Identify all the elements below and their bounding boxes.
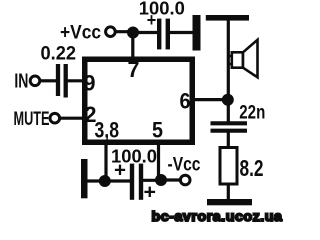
svg-text:+: + [144,182,157,204]
capacitor C3 100.0 plates [132,164,141,200]
svg-text:+: + [114,159,126,181]
junction dot 3,8 node [99,175,111,187]
svg-text:7: 7 [128,57,140,82]
svg-text:+: + [147,10,157,30]
resistor R1 8.2 [220,148,237,185]
pin 5 label [152,118,163,143]
wire C2 to R1 [227,132,230,147]
polarity + of C3 right [144,182,157,204]
wire speaker ground down to output node [227,20,230,122]
junction dot output node [222,94,234,106]
pin 9 label [84,70,96,95]
wire pin 6 to output node [193,98,228,101]
wire junction to -Vcc [161,178,181,181]
wire ground to junction 3,8 [88,179,105,182]
node +Vcc terminal [60,22,115,43]
pin 7 label [128,57,140,82]
polarity + of C1 [147,10,157,30]
svg-text:6: 6 [180,89,191,114]
speaker LS1 [228,40,257,78]
value label 22n [239,101,265,123]
svg-text:0.22: 0.22 [41,43,77,65]
capacitor C-in 0.22 plates [58,64,66,98]
svg-text:MUTE: MUTE [14,109,50,130]
wire C-in to pin 9 [68,79,85,82]
wire C3 to pin5 junction [143,179,161,182]
svg-text:-Vcc: -Vcc [168,155,201,176]
capacitor C2 22n plates [211,123,248,130]
value label 0.22 [41,43,77,65]
svg-text:3,8: 3,8 [95,118,120,143]
wire +Vcc to junction [115,30,133,33]
svg-text:22n: 22n [239,101,265,123]
ground bar bottom left [81,159,88,198]
svg-text:100.0: 100.0 [139,0,185,19]
svg-text:9: 9 [84,70,96,95]
wire pin 5 down [157,143,160,180]
wire R1 to ground [227,184,230,200]
ground bar bottom right [207,199,252,205]
ground bar top (C1) [193,15,201,51]
junction dot at pin 7 [127,27,139,39]
svg-text:+Vcc: +Vcc [60,22,101,43]
value label 8.2 [240,155,264,181]
ground bar speaker top [206,15,249,21]
wire C1 to ground [170,31,193,34]
value label 100.0 bottom [111,146,157,166]
wire junction to C3 [105,179,130,182]
pin 2 label [85,102,97,127]
node IN terminal [14,71,39,93]
node -Vcc terminal [168,155,201,185]
junction dot pin 5 node [155,174,167,186]
svg-text:8.2: 8.2 [240,155,264,181]
wire IN to C-in [41,79,56,82]
wire MUTE to pin 2 [60,117,84,120]
polarity + of C3 left [114,159,126,181]
node MUTE terminal [14,109,60,130]
wire junction to C1 [132,31,158,34]
watermark bc-avrora.ucoz.ua [152,209,283,224]
op-amp IC U1 body [85,59,193,142]
value label 100.0 top [139,0,185,19]
wire pin 3,8 down [104,143,107,181]
capacitor C1 100.0 plates [159,19,168,50]
svg-text:bc-avrora.ucoz.ua: bc-avrora.ucoz.ua [152,209,283,222]
pin 3,8 label [95,118,120,143]
svg-text:5: 5 [152,118,163,143]
svg-text:IN: IN [14,71,28,93]
pin 6 label [180,89,191,114]
wire junction to pin 7 [131,32,134,57]
